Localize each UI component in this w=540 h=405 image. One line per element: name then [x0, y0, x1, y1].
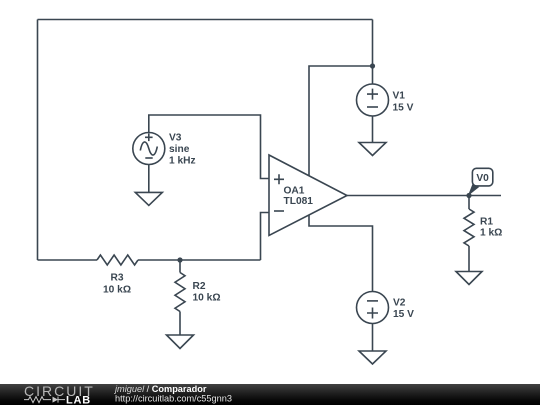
- wire R1 to ground: [468, 246, 470, 272]
- ground under R2: [167, 335, 194, 349]
- svg-text:LAB: LAB: [66, 394, 91, 405]
- svg-text:R3: R3: [110, 273, 123, 284]
- svg-text:V2: V2: [393, 298, 406, 309]
- ground under R1: [456, 272, 482, 285]
- ground under V3: [135, 192, 162, 205]
- svg-text:15 V: 15 V: [393, 103, 414, 114]
- wire top rail down to V1: [372, 20, 374, 85]
- svg-text:TL081: TL081: [284, 196, 314, 207]
- svg-text:V1: V1: [393, 91, 406, 102]
- wire R2 to ground: [179, 312, 181, 336]
- wire V+ supply tee: [309, 66, 373, 176]
- ground under V1: [359, 143, 386, 156]
- resistor R2: [175, 273, 185, 312]
- wire junction to R1: [468, 196, 470, 210]
- logo wire-resistor-diode doodle: [24, 397, 65, 403]
- svg-text:http://circuitlab.com/c55gnn3: http://circuitlab.com/c55gnn3: [115, 394, 232, 404]
- wire junction to R2: [179, 260, 181, 273]
- flag V0 pointer: [468, 184, 479, 196]
- svg-text:15 V: 15 V: [393, 309, 414, 320]
- svg-text:1 kHz: 1 kHz: [169, 156, 196, 167]
- node junction output: [466, 193, 471, 198]
- voltage source V2: [357, 292, 389, 324]
- wire V3 bottom to ground: [148, 165, 150, 193]
- resistor R3: [97, 255, 138, 265]
- node junction at V1 top: [370, 63, 375, 68]
- wire top rail: [38, 19, 373, 21]
- op-amp OA1: [269, 155, 347, 236]
- svg-text:sine: sine: [169, 144, 190, 155]
- flag V0 box: [472, 168, 492, 186]
- wire V3 top to non-inverting input: [149, 115, 269, 179]
- svg-text:jmiguel / Comparador: jmiguel / Comparador: [113, 384, 207, 394]
- node junction R2/R3: [177, 257, 182, 262]
- wire R3 to corner: [138, 259, 261, 261]
- svg-text:R2: R2: [193, 281, 206, 292]
- svg-text:10 kΩ: 10 kΩ: [193, 293, 221, 304]
- wire V- pin down: [309, 215, 373, 292]
- wire left rail: [37, 20, 39, 261]
- wire V1 bottom to ground: [372, 116, 374, 143]
- svg-text:1 kΩ: 1 kΩ: [480, 228, 502, 239]
- voltage source V1: [357, 84, 389, 116]
- footer bar: [0, 384, 540, 405]
- wire V2 bottom to ground: [372, 324, 374, 352]
- resistor R1: [464, 209, 474, 246]
- svg-text:OA1: OA1: [284, 186, 305, 197]
- svg-text:R1: R1: [480, 217, 493, 228]
- svg-text:V0: V0: [476, 173, 489, 184]
- svg-text:10 kΩ: 10 kΩ: [103, 285, 131, 296]
- wire bottom-left to R3: [38, 259, 98, 261]
- wire corner up to inverting input: [261, 213, 270, 261]
- ground under V2: [359, 351, 386, 364]
- wire op-amp output: [347, 195, 501, 197]
- voltage source V3 sine: [133, 133, 165, 165]
- svg-text:V3: V3: [169, 133, 182, 144]
